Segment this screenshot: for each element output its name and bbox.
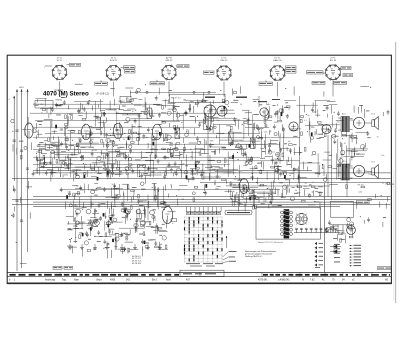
svg-text:5k: 5k: [116, 189, 118, 191]
svg-text:100: 100: [304, 186, 307, 188]
svg-text:220k: 220k: [116, 113, 120, 115]
svg-text:NA N: NA N: [19, 86, 24, 89]
svg-text:2n: 2n: [382, 182, 384, 184]
svg-text:0,05: 0,05: [358, 191, 362, 193]
svg-text:EC 92: EC 92: [57, 60, 63, 62]
svg-text:4070 (M) Stereo: 4070 (M) Stereo: [43, 90, 89, 97]
svg-text:Ausf: Ausf: [166, 279, 171, 282]
svg-text:220k: 220k: [169, 145, 173, 147]
svg-text:1k: 1k: [243, 202, 245, 204]
svg-text:0,1: 0,1: [304, 120, 307, 122]
svg-text:1k: 1k: [123, 139, 125, 141]
svg-text:ECH 81: ECH 81: [110, 60, 118, 62]
svg-text:220k: 220k: [385, 184, 389, 186]
svg-text:10n: 10n: [368, 174, 371, 176]
svg-text:5k: 5k: [36, 152, 38, 154]
svg-text:5k: 5k: [377, 137, 379, 139]
svg-text:Ers.f.: Ers.f.: [152, 279, 158, 282]
svg-text:0,1: 0,1: [159, 172, 162, 174]
svg-text:Urspr: Urspr: [96, 279, 102, 282]
svg-text:4060: 4060: [110, 280, 116, 282]
svg-text:10n: 10n: [80, 113, 83, 115]
svg-text:2n: 2n: [312, 182, 314, 184]
svg-text:100: 100: [199, 155, 202, 157]
svg-text:2n: 2n: [95, 171, 97, 173]
svg-text:220k: 220k: [236, 119, 240, 121]
svg-text:4070.041: 4070.041: [258, 280, 268, 282]
svg-text:47: 47: [156, 169, 158, 171]
svg-text:10n: 10n: [288, 141, 291, 143]
svg-text:2n: 2n: [85, 164, 87, 166]
svg-text:2n: 2n: [127, 188, 129, 190]
svg-text:EBF 89: EBF 89: [166, 60, 174, 62]
svg-text:5k: 5k: [295, 190, 297, 192]
svg-text:Anderung: Anderung: [45, 279, 56, 282]
svg-text:5k: 5k: [214, 184, 216, 186]
svg-text:Nam: Nam: [74, 280, 79, 282]
svg-text:0,05: 0,05: [311, 127, 315, 129]
svg-text:EABC 80: EABC 80: [273, 59, 282, 62]
svg-text:2n: 2n: [339, 172, 341, 174]
svg-text:47: 47: [305, 183, 307, 185]
svg-text:5k: 5k: [240, 104, 242, 106]
svg-text:(F-108-12): (F-108-12): [97, 92, 109, 96]
svg-text:5k: 5k: [183, 163, 185, 165]
svg-text:0,1: 0,1: [266, 103, 269, 105]
svg-text:1k: 1k: [170, 184, 172, 186]
svg-text:100: 100: [81, 190, 84, 192]
svg-text:5k: 5k: [112, 184, 114, 186]
svg-text:Netzteil TR 101 / Gleichricht: Netzteil TR 101 / Gleichricht.: [258, 241, 284, 244]
svg-text:05 74 4.8: 05 74 4.8: [132, 263, 142, 265]
svg-text:220k: 220k: [64, 174, 68, 176]
svg-text:u.4080.041: u.4080.041: [278, 280, 290, 282]
svg-text:100: 100: [140, 201, 143, 203]
svg-text:5k: 5k: [350, 201, 352, 203]
svg-text:10n: 10n: [217, 120, 220, 122]
svg-text:10n: 10n: [161, 121, 164, 123]
svg-text:10n: 10n: [337, 164, 340, 166]
svg-text:2n: 2n: [308, 115, 310, 117]
svg-text:47: 47: [199, 141, 201, 143]
svg-text:7.62: 7.62: [310, 280, 315, 282]
svg-text:0,05: 0,05: [264, 132, 268, 134]
svg-text:FM ZF 10.7: FM ZF 10.7: [171, 98, 182, 100]
svg-text:0,05: 0,05: [230, 144, 234, 146]
svg-text:d: d: [9, 99, 10, 101]
svg-text:2n: 2n: [238, 200, 240, 202]
svg-text:10n: 10n: [381, 155, 384, 157]
svg-text:100: 100: [91, 139, 94, 141]
svg-text:2n: 2n: [178, 190, 180, 192]
svg-text:0,1: 0,1: [272, 152, 275, 154]
svg-text:0,05: 0,05: [67, 191, 71, 193]
svg-text:ELL 80: ELL 80: [330, 60, 337, 62]
svg-text:0,05: 0,05: [266, 188, 270, 190]
svg-text:47: 47: [344, 143, 346, 145]
svg-text:100: 100: [186, 130, 189, 132]
svg-text:EBF 89: EBF 89: [221, 60, 229, 62]
svg-text:5k: 5k: [150, 154, 152, 156]
svg-text:5k: 5k: [66, 165, 68, 167]
svg-text:2n: 2n: [167, 134, 169, 136]
svg-text:0,05: 0,05: [59, 130, 63, 132]
svg-text:220k: 220k: [63, 144, 67, 146]
svg-text:Stellung TA 220 V~: Stellung TA 220 V~: [245, 255, 263, 258]
svg-text:10n: 10n: [337, 121, 340, 123]
svg-text:5k: 5k: [103, 134, 105, 136]
svg-text:47: 47: [311, 155, 313, 157]
